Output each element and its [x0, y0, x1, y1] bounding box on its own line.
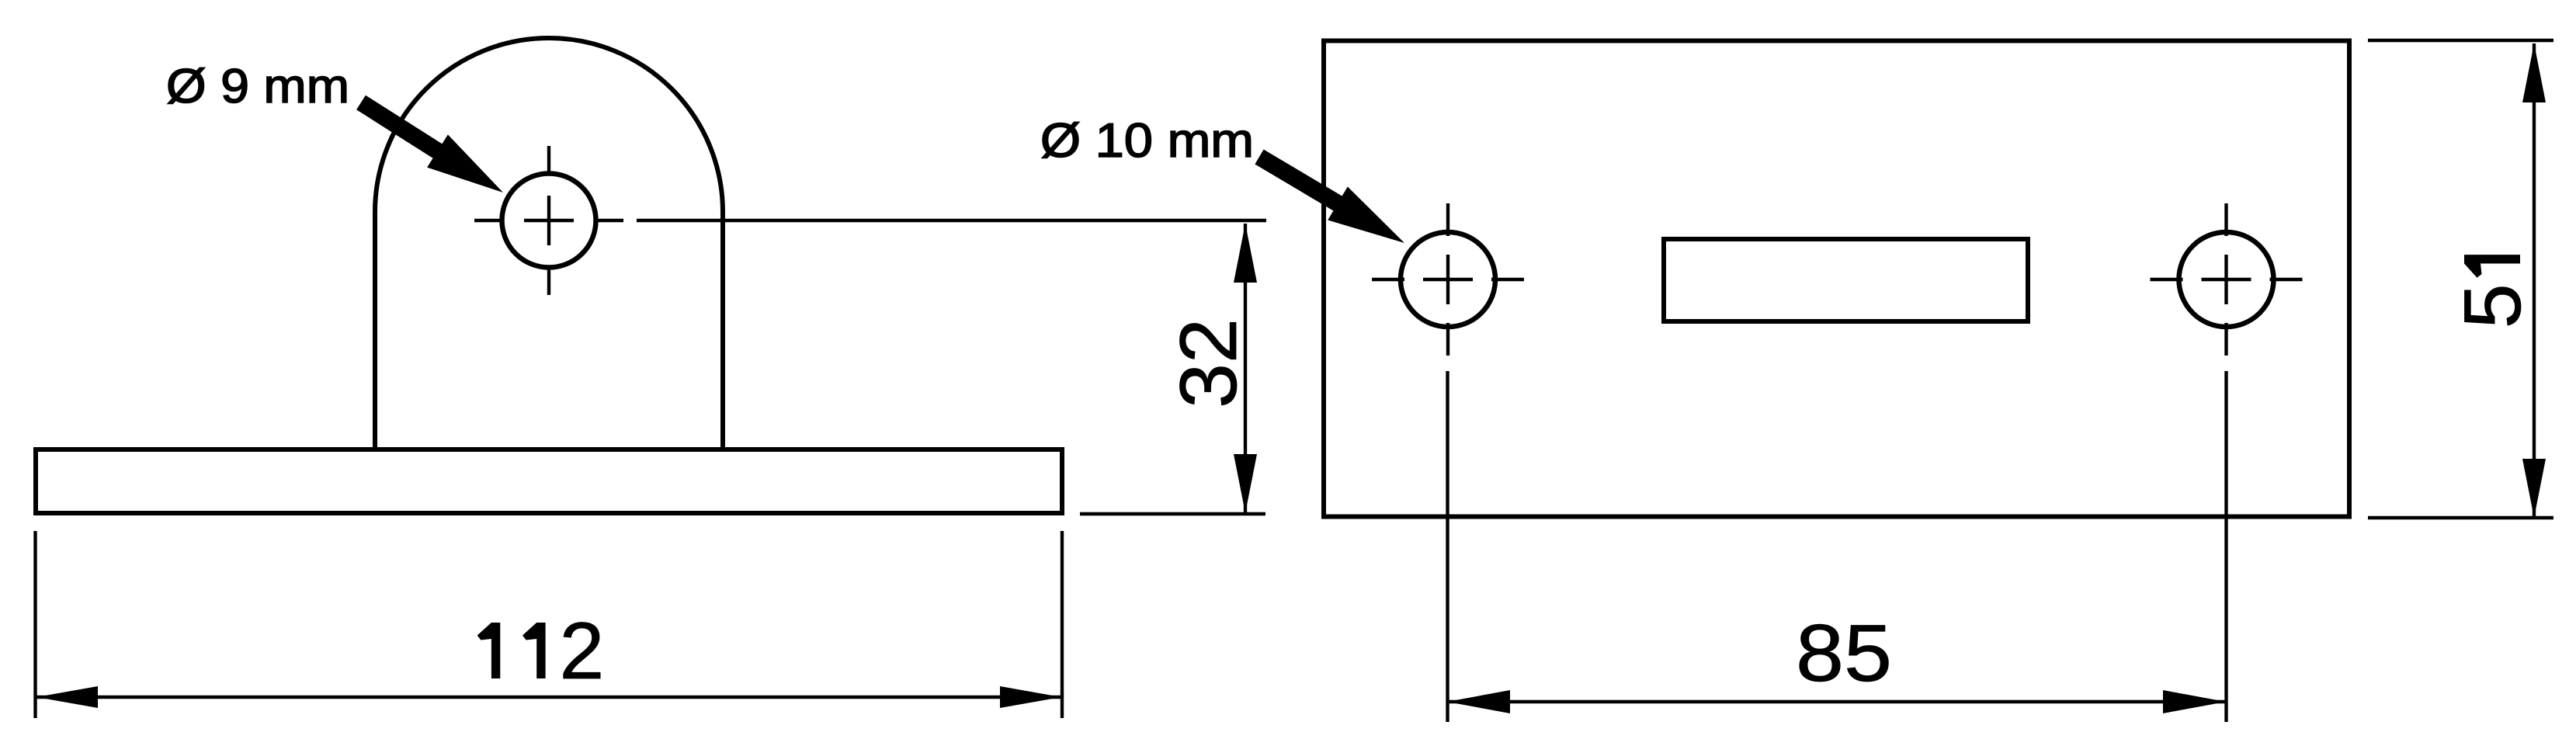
svg-text:32: 32 [1164, 318, 1254, 408]
svg-text:2: 2 [560, 606, 605, 696]
svg-text:Ø 9 mm: Ø 9 mm [166, 60, 349, 113]
svg-text:5: 5 [2448, 283, 2538, 328]
svg-text:85: 85 [1796, 609, 1892, 699]
svg-text:Ø 10 mm: Ø 10 mm [1040, 114, 1254, 168]
